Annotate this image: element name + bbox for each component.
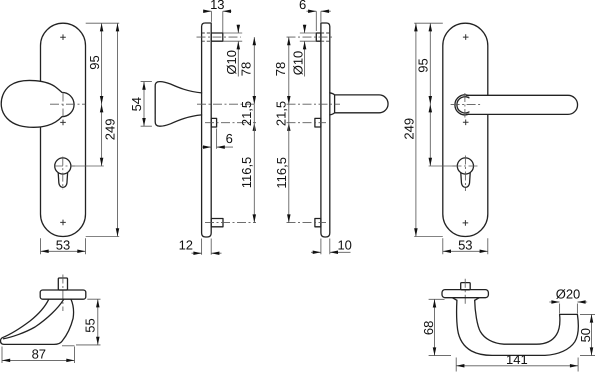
fig3 dimension 10 extension lines bottom (321, 239, 330, 255)
fig4 lever plate front view: plate outline (443, 23, 488, 236)
fig2 centerline handle axis (197, 103, 256, 105)
fig6 dimension line 50 (591, 314, 593, 355)
fig5 flange (40, 290, 86, 299)
fig3 lever plate side view: cover plate (321, 23, 330, 237)
svg-text:68: 68 (421, 321, 436, 335)
fig2 mid fixing stub (211, 118, 216, 127)
fig4 extension line plate top (414, 22, 443, 24)
fig2 dimension line diameter 10 (237, 25, 239, 77)
svg-text:78: 78 (273, 62, 288, 76)
svg-text:249: 249 (102, 119, 117, 141)
fig5 dimension 55 extension lines (76, 299, 101, 345)
svg-text:53: 53 (56, 237, 70, 252)
fig3 centerline top hole (287, 36, 335, 38)
fig4 dimension 53 extension lines (443, 238, 488, 254)
fig5 dimension line 87 (2, 359, 75, 361)
svg-text:116,5: 116,5 (239, 157, 254, 189)
svg-text:53: 53 (458, 237, 472, 252)
svg-text:78: 78 (238, 62, 253, 76)
fig4 lever grip (467, 95, 578, 114)
fig1 screw cross top (60, 34, 66, 40)
fig3 lever handle profile (330, 93, 388, 115)
svg-text:Ø20: Ø20 (556, 287, 581, 302)
fig2 top hole hidden lines (202, 33, 212, 41)
fig4 extension line keyhole center (429, 165, 458, 167)
fig3 dimension 6 extension lines (316, 11, 321, 31)
fig2 dimension 10 hole extension lines (223, 33, 242, 41)
fig5 knob body inner curve (4, 300, 64, 339)
fig6 lever profile: spindle (461, 283, 471, 290)
fig6 dimension line 68 (434, 299, 436, 355)
svg-text:Ø10: Ø10 (224, 50, 239, 75)
fig2 knob plate side view: cover plate (202, 23, 212, 237)
fig2 dimension line 21,5 (253, 104, 255, 123)
fig1 screw cross bottom (60, 220, 66, 226)
fig1 extension line keyhole center (71, 165, 104, 167)
fig3 centerline handle axis (287, 103, 341, 105)
fig5 heel extension segment (62, 345, 75, 347)
fig5 knob profile: spindle (58, 278, 67, 290)
fig1 dimension line 249 (117, 23, 119, 236)
fig1 keyhole centerline vertical (62, 157, 64, 190)
fig2 top fixing stub (211, 33, 223, 41)
svg-text:Ø10: Ø10 (290, 51, 305, 76)
fig2 dimension line 13 (203, 10, 231, 12)
svg-text:13: 13 (210, 0, 224, 12)
fig2 dimension line 54 (143, 82, 145, 127)
fig2 centerline bottom stub (205, 222, 256, 224)
fig1 dimension line 95 and chain to keyhole (101, 23, 103, 166)
fig2 dimension 13 extension lines (211, 11, 222, 32)
svg-text:50: 50 (578, 328, 593, 342)
svg-text:95: 95 (416, 58, 431, 72)
svg-text:55: 55 (83, 318, 98, 332)
fig4 keyhole centerline horizontal (453, 165, 479, 167)
svg-text:10: 10 (337, 237, 351, 252)
fig3 top fixing stub (316, 33, 321, 41)
fig1 knob plate front view: plate outline (41, 23, 86, 236)
fig1 extension line plate top (86, 22, 120, 24)
fig6 dimension line diameter 20 (549, 301, 587, 303)
fig5 dimension 87 extension lines (2, 347, 75, 364)
fig4 screw cross top (463, 34, 469, 40)
fig4 extension line plate bottom (414, 236, 443, 238)
fig6 dimension 141 extension lines (456, 358, 578, 372)
fig6 dimension line 141 (456, 365, 578, 367)
fig3 mid fixing stub (315, 118, 321, 127)
fig2 dimension line 12 (192, 252, 222, 254)
fig4 collar centerline vertical (464, 93, 466, 118)
fig1 knob centerline horizontal (50, 103, 85, 105)
fig6 lever tube (457, 300, 579, 355)
fig4 screw cross bottom (463, 220, 469, 226)
fig3 dimension 10 hole extension lines (300, 33, 317, 41)
fig6 dimension 50 extension lines (580, 314, 595, 355)
fig4 lever collar inner arc (457, 97, 469, 113)
fig3 dimension line diameter 10 (304, 25, 306, 77)
fig3 dimension line 78 (288, 37, 290, 104)
fig1 keyhole centerline horizontal (54, 165, 75, 167)
fig3 centerline bottom stub (287, 222, 327, 224)
svg-text:21,5: 21,5 (274, 101, 289, 126)
fig2 dimension 6 extension line (216, 129, 218, 149)
fig3 dimension line 10 bottom (311, 251, 351, 253)
fig1 extension line plate bottom (86, 236, 120, 238)
fig4 lever grip fill (465, 95, 578, 114)
fig2 dimension 12 extension lines (202, 239, 212, 255)
fig1 cylinder keyhole body (58, 173, 67, 188)
fig4 screw cross mid (463, 120, 469, 126)
fig1 knob body (1, 80, 74, 127)
svg-text:95: 95 (87, 55, 102, 69)
svg-text:87: 87 (32, 346, 46, 361)
svg-text:54: 54 (129, 97, 144, 111)
fig1 dimension 53 extension lines (41, 238, 86, 254)
fig2 dimension line 6 (201, 146, 233, 148)
fig2 dimension line 78 (253, 37, 255, 104)
fig4 dimension line 95 and chain to keyhole (429, 23, 431, 166)
fig6 dimension 68 extension lines (429, 299, 451, 355)
fig3 top hole hidden lines (321, 33, 330, 41)
svg-text:6: 6 (299, 0, 306, 12)
fig5 knob body outline (1, 299, 74, 344)
fig4 dimension line 53 (443, 250, 488, 252)
fig4 cylinder keyhole body (461, 173, 470, 188)
fig6 dimension diameter 20 extension lines (560, 304, 578, 314)
fig1 screw cross mid (60, 120, 66, 126)
svg-text:6: 6 (226, 131, 233, 146)
fig2 centerline mid stub (205, 122, 256, 124)
fig1 dimension line 53 (41, 250, 86, 252)
fig5 spindle centerline (62, 275, 64, 312)
fig4 dimension line 249 (415, 23, 417, 236)
svg-text:12: 12 (179, 237, 193, 252)
fig4 cylinder keyhole circle (457, 158, 473, 174)
fig5 dimension line 55 (97, 299, 99, 345)
fig6 collar step (452, 298, 479, 301)
fig2 dimension 54 extension lines (141, 82, 152, 127)
fig3 dimension line 116,5 (288, 123, 290, 223)
svg-text:141: 141 (506, 352, 528, 367)
fig2 dimension line 116,5 (253, 123, 255, 223)
fig4 keyhole centerline vertical (464, 156, 466, 192)
svg-text:249: 249 (402, 118, 417, 140)
fig4 collar centerline horizontal (451, 104, 482, 106)
svg-text:116,5: 116,5 (274, 157, 289, 189)
fig4 lever collar outer arc (455, 95, 469, 115)
fig1 knob centerline vertical (62, 93, 64, 117)
fig3 centerline mid stub (287, 122, 327, 124)
fig2 knob profile (155, 82, 201, 127)
fig3 bottom fixing stub (315, 219, 321, 227)
fig3 dimension line 21,5 (288, 104, 290, 123)
svg-text:21,5: 21,5 (239, 101, 254, 126)
fig3 dimension line 6 (307, 10, 331, 12)
fig2 centerline top hole (197, 36, 241, 38)
fig1 cylinder keyhole circle (55, 158, 71, 174)
fig2 bottom fixing stub (211, 219, 223, 227)
fig6 spindle centerline (464, 279, 466, 305)
fig6 flange (442, 290, 488, 298)
